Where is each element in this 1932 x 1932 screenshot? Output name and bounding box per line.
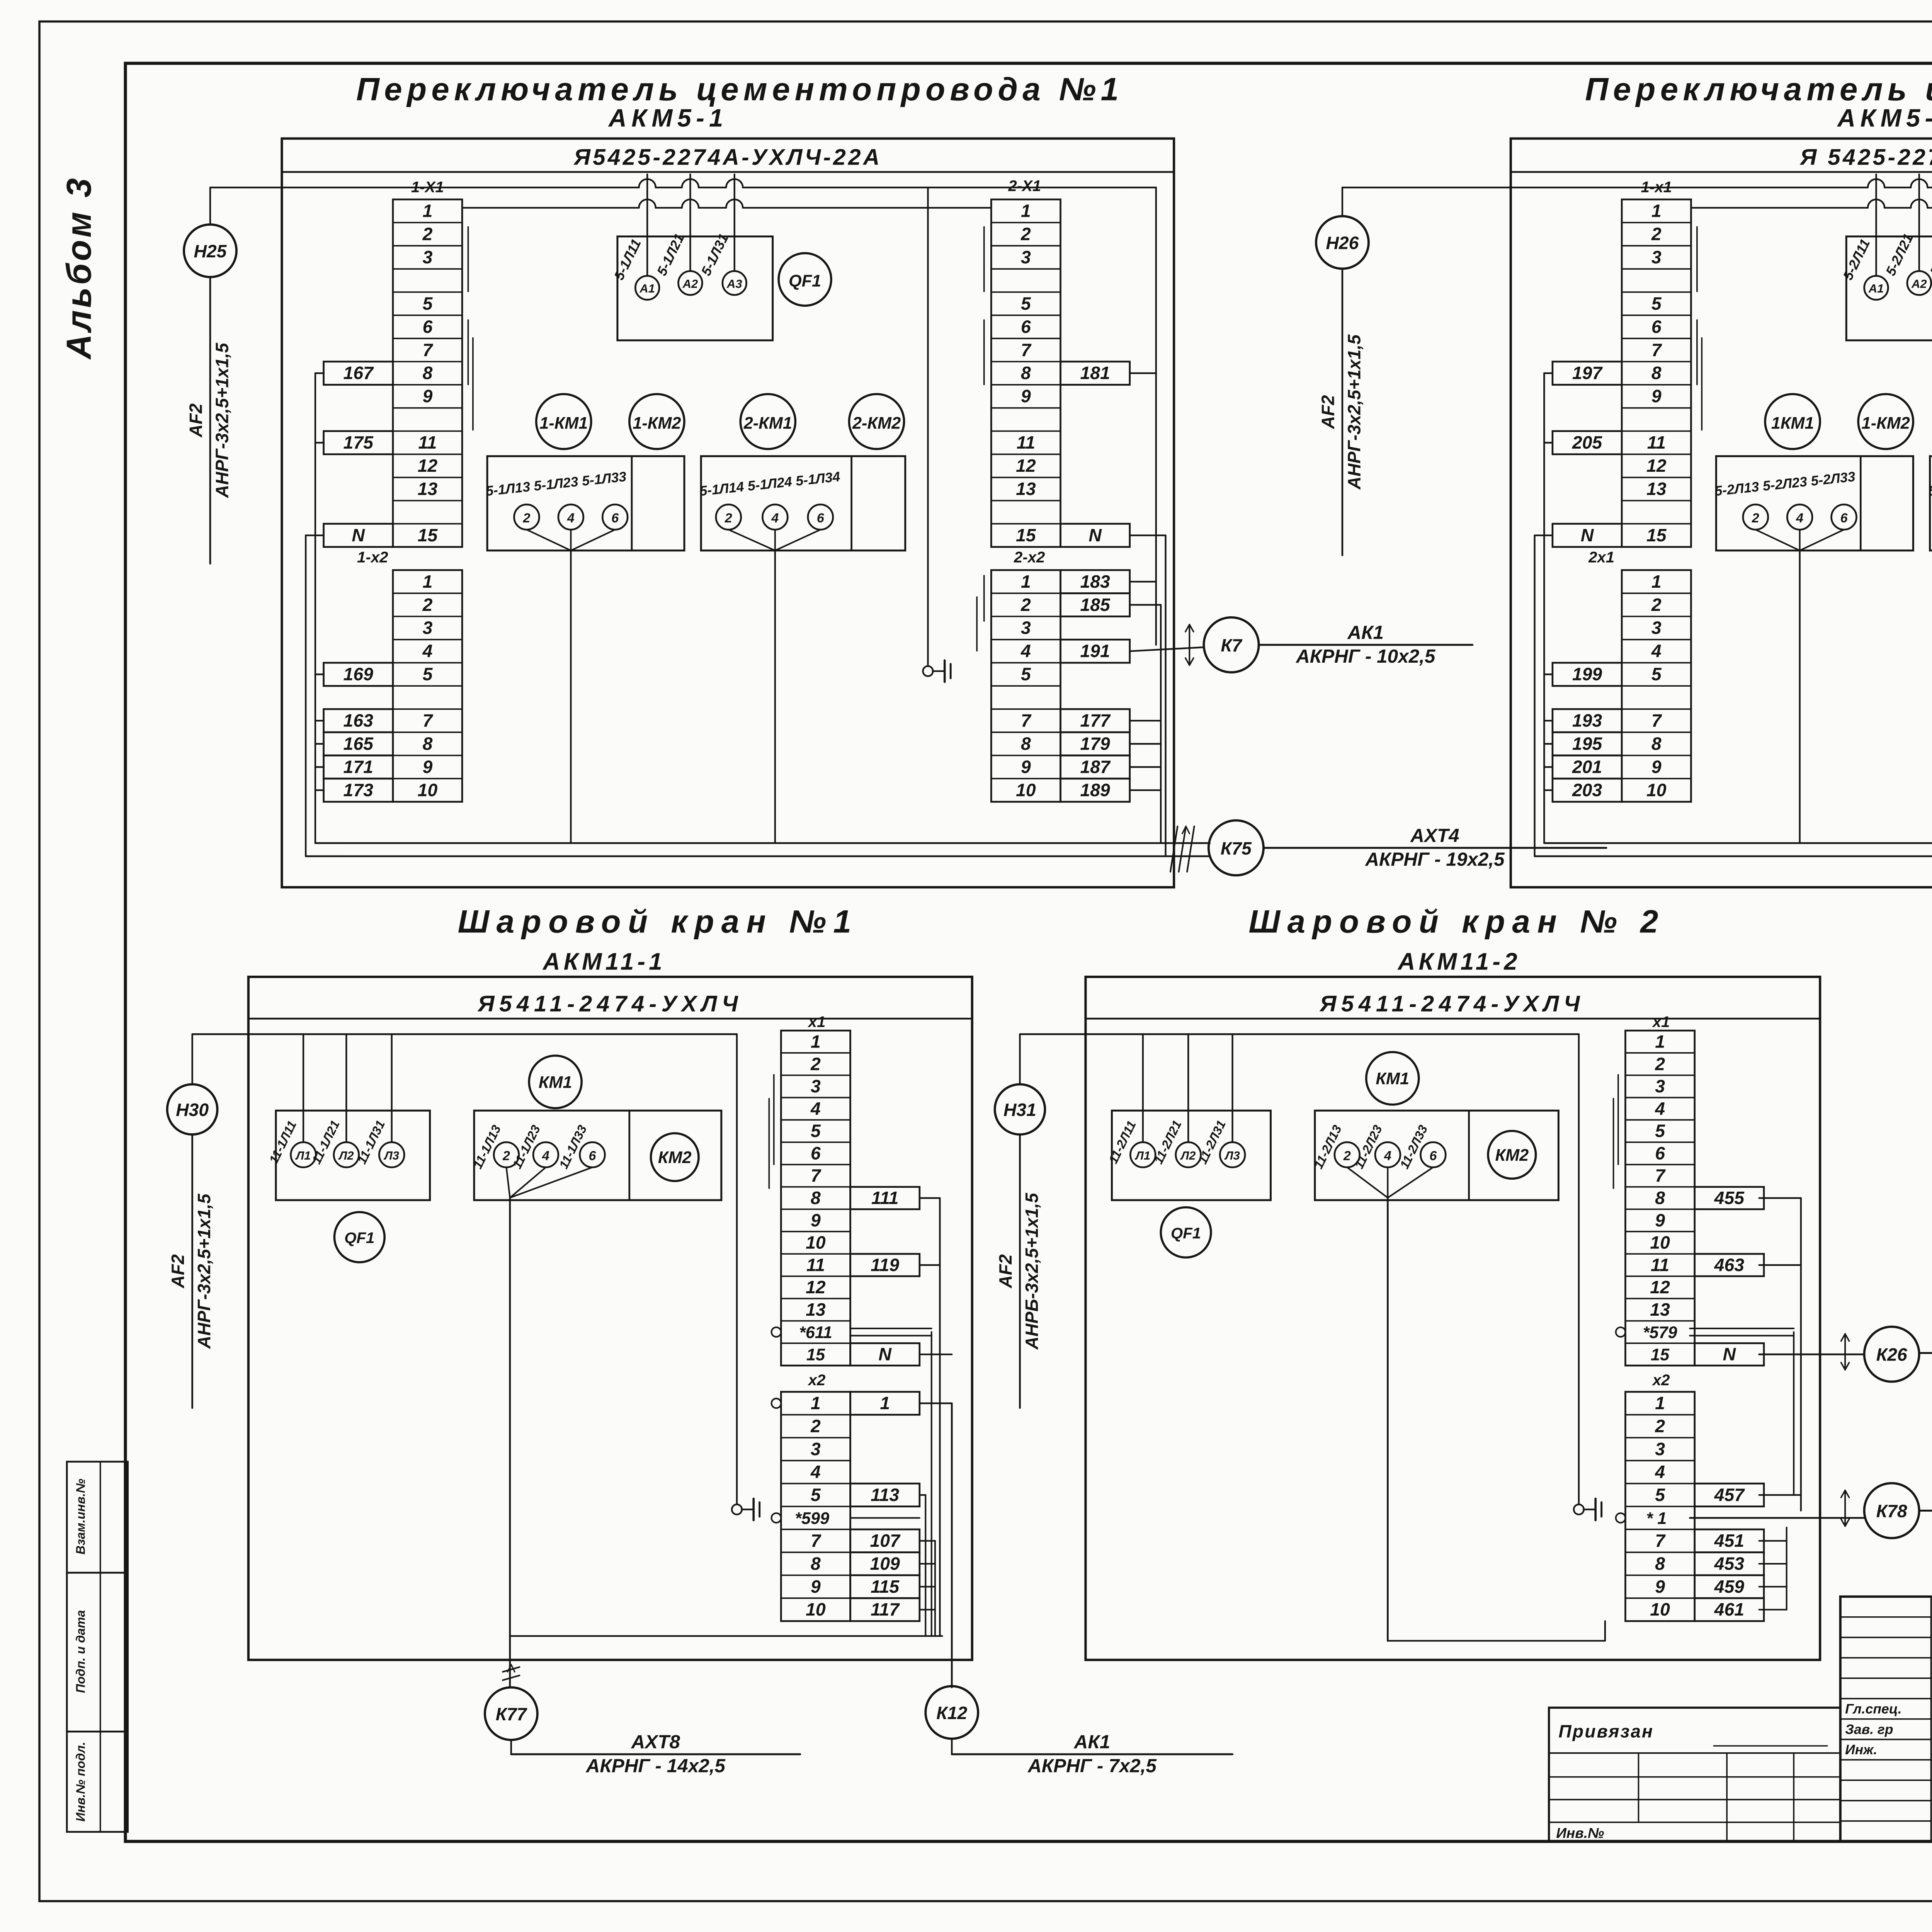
svg-text:АF2: АF2	[1318, 395, 1338, 429]
svg-text:455: 455	[1714, 1188, 1745, 1208]
svg-text:5: 5	[811, 1121, 821, 1141]
svg-text:5: 5	[1021, 293, 1031, 313]
svg-text:5: 5	[1651, 293, 1662, 313]
svg-text:2: 2	[1752, 511, 1759, 526]
svg-text:1: 1	[811, 1393, 821, 1413]
svg-text:3: 3	[423, 618, 433, 638]
svg-text:12: 12	[418, 456, 438, 476]
svg-text:183: 183	[1080, 571, 1111, 592]
svg-text:13: 13	[806, 1299, 826, 1320]
svg-text:3: 3	[1651, 247, 1662, 267]
svg-text:7: 7	[1651, 711, 1662, 731]
svg-text:113: 113	[871, 1485, 899, 1505]
svg-text:119: 119	[871, 1255, 899, 1275]
svg-text:205: 205	[1572, 432, 1603, 452]
svg-text:Переключатель цементопровода: Переключатель цементопровода №2	[1585, 71, 1932, 107]
svg-text:Н30: Н30	[176, 1100, 209, 1120]
svg-text:Н31: Н31	[1003, 1100, 1036, 1120]
svg-text:117: 117	[871, 1599, 900, 1619]
svg-text:А2: А2	[682, 277, 698, 291]
svg-text:Л3: Л3	[384, 1149, 399, 1162]
svg-text:12: 12	[1650, 1277, 1670, 1297]
svg-text:АНРБ-3х2,5+1х1,5: АНРБ-3х2,5+1х1,5	[1022, 1192, 1042, 1350]
svg-text:9: 9	[1651, 757, 1662, 777]
svg-text:7: 7	[1021, 711, 1032, 731]
svg-text:9: 9	[423, 757, 433, 777]
svg-text:203: 203	[1572, 780, 1602, 800]
svg-text:КМ2: КМ2	[1495, 1146, 1529, 1165]
svg-text:10: 10	[1646, 780, 1667, 800]
svg-text:9: 9	[1655, 1210, 1665, 1230]
svg-text:4: 4	[422, 641, 433, 661]
svg-text:9: 9	[1021, 757, 1031, 777]
svg-text:1: 1	[1651, 571, 1662, 592]
svg-text:4: 4	[1651, 641, 1662, 661]
svg-text:15: 15	[1016, 525, 1036, 545]
svg-text:12: 12	[806, 1277, 826, 1297]
svg-text:Я 5425-2274А-УХЛ4-22А: Я 5425-2274А-УХЛ4-22А	[1799, 145, 1932, 170]
svg-text:13: 13	[418, 479, 438, 499]
svg-text:11: 11	[1017, 432, 1035, 452]
svg-text:165: 165	[344, 734, 374, 754]
svg-text:6: 6	[1021, 316, 1031, 337]
svg-text:Л1: Л1	[1135, 1149, 1150, 1162]
svg-text:2: 2	[1651, 224, 1662, 244]
svg-text:10: 10	[806, 1599, 826, 1619]
svg-text:187: 187	[1080, 757, 1111, 777]
svg-text:3: 3	[423, 247, 433, 267]
svg-text:109: 109	[870, 1553, 900, 1573]
svg-text:1-х1: 1-х1	[1641, 179, 1672, 196]
svg-text:173: 173	[344, 780, 374, 800]
svg-text:9: 9	[811, 1577, 821, 1597]
svg-text:АК1: АК1	[1347, 622, 1384, 643]
svg-text:1: 1	[1655, 1031, 1665, 1051]
svg-text:АНРГ-3х2,5+1х1,5: АНРГ-3х2,5+1х1,5	[194, 1193, 214, 1349]
svg-text:3: 3	[1021, 618, 1031, 638]
svg-text:К77: К77	[496, 1704, 527, 1724]
svg-text:11: 11	[806, 1255, 825, 1275]
svg-text:* 1: * 1	[1646, 1509, 1667, 1528]
svg-text:3: 3	[1655, 1439, 1665, 1459]
svg-text:2: 2	[724, 511, 732, 526]
svg-text:8: 8	[1655, 1553, 1665, 1573]
svg-text:7: 7	[1651, 340, 1662, 360]
svg-text:К7: К7	[1221, 635, 1242, 655]
svg-text:201: 201	[1572, 757, 1602, 777]
svg-text:175: 175	[344, 432, 374, 452]
svg-text:4: 4	[810, 1099, 821, 1119]
svg-text:1: 1	[880, 1393, 890, 1413]
svg-text:АК1: АК1	[1073, 1731, 1111, 1753]
svg-text:169: 169	[344, 664, 374, 684]
svg-text:К78: К78	[1876, 1501, 1907, 1521]
svg-text:х2: х2	[808, 1371, 826, 1389]
svg-text:Инв.№ подл.: Инв.№ подл.	[73, 1742, 87, 1822]
svg-text:1-КМ2: 1-КМ2	[633, 414, 681, 432]
svg-text:Л2: Л2	[1180, 1149, 1196, 1162]
svg-text:АКРНГ - 10х2,5: АКРНГ - 10х2,5	[1295, 646, 1436, 667]
svg-text:х2: х2	[1652, 1371, 1670, 1389]
svg-text:Шаровой кран №1: Шаровой кран №1	[458, 903, 859, 940]
svg-text:8: 8	[811, 1553, 821, 1573]
svg-text:Шаровой кран № 2: Шаровой кран № 2	[1248, 903, 1665, 940]
svg-text:451: 451	[1714, 1531, 1744, 1551]
svg-text:2-Х1: 2-Х1	[1008, 177, 1041, 194]
svg-text:7: 7	[1655, 1531, 1666, 1551]
svg-text:Инв.№: Инв.№	[1556, 1825, 1604, 1841]
svg-text:АНРГ-3х2,5+1х1,5: АНРГ-3х2,5+1х1,5	[1344, 334, 1364, 490]
svg-text:163: 163	[344, 711, 374, 731]
svg-text:*599: *599	[795, 1509, 829, 1528]
svg-text:Взам.инв.№: Взам.инв.№	[73, 1479, 87, 1554]
svg-text:181: 181	[1080, 363, 1110, 383]
svg-text:12: 12	[1016, 456, 1036, 476]
svg-text:1: 1	[1021, 201, 1031, 221]
svg-text:Переключатель цементопровода: Переключатель цементопровода №1	[356, 71, 1124, 107]
svg-text:4: 4	[1655, 1099, 1665, 1119]
svg-text:115: 115	[871, 1577, 900, 1597]
svg-text:АКМ5-2: АКМ5-2	[1837, 104, 1932, 132]
svg-text:1: 1	[1021, 571, 1031, 592]
svg-text:195: 195	[1572, 734, 1603, 754]
svg-text:К26: К26	[1876, 1345, 1908, 1365]
svg-text:111: 111	[871, 1188, 898, 1208]
svg-text:Привязан: Привязан	[1558, 1721, 1654, 1742]
svg-text:3: 3	[1651, 618, 1662, 638]
svg-text:5: 5	[1651, 664, 1662, 684]
svg-text:N: N	[1581, 525, 1594, 545]
svg-text:1КМ1: 1КМ1	[1771, 414, 1814, 432]
svg-text:х1: х1	[808, 1013, 826, 1031]
svg-text:Альбом 3: Альбом 3	[60, 176, 98, 360]
svg-text:9: 9	[1655, 1577, 1665, 1597]
svg-text:АНРГ-3х2,5+1х1,5: АНРГ-3х2,5+1х1,5	[212, 342, 232, 498]
svg-text:9: 9	[811, 1210, 821, 1230]
svg-text:АКМ11-1: АКМ11-1	[542, 949, 666, 975]
svg-text:6: 6	[423, 316, 433, 337]
svg-text:N: N	[1723, 1344, 1736, 1364]
svg-text:2: 2	[422, 595, 433, 615]
svg-text:11: 11	[418, 432, 437, 452]
svg-text:2: 2	[1343, 1148, 1351, 1163]
svg-text:7: 7	[811, 1165, 821, 1185]
svg-text:6: 6	[589, 1148, 597, 1163]
svg-text:2-КМ2: 2-КМ2	[852, 414, 901, 432]
svg-text:171: 171	[344, 757, 373, 777]
svg-text:N: N	[1088, 525, 1102, 545]
svg-text:Л2: Л2	[338, 1149, 354, 1162]
svg-text:2: 2	[810, 1416, 821, 1436]
svg-text:13: 13	[1646, 479, 1667, 499]
svg-text:9: 9	[1021, 386, 1031, 406]
svg-text:А1: А1	[639, 282, 655, 295]
svg-text:2: 2	[422, 224, 433, 244]
svg-text:8: 8	[423, 734, 433, 754]
svg-text:АF2: АF2	[168, 1254, 188, 1289]
svg-text:10: 10	[1650, 1599, 1670, 1619]
svg-text:1-х2: 1-х2	[357, 549, 388, 566]
svg-text:*579: *579	[1643, 1323, 1677, 1342]
svg-text:6: 6	[811, 1143, 821, 1163]
svg-text:7: 7	[811, 1531, 821, 1551]
svg-text:1: 1	[1655, 1393, 1665, 1413]
svg-text:4: 4	[1796, 511, 1803, 526]
svg-text:Я5411-2474-УХЛЧ: Я5411-2474-УХЛЧ	[477, 992, 743, 1017]
svg-text:459: 459	[1714, 1577, 1745, 1597]
svg-text:КМ1: КМ1	[539, 1073, 572, 1092]
svg-text:6: 6	[611, 511, 619, 526]
svg-text:5: 5	[423, 664, 433, 684]
svg-text:QF1: QF1	[789, 272, 821, 291]
svg-text:К12: К12	[936, 1703, 967, 1723]
svg-text:Гл.спец.: Гл.спец.	[1845, 1701, 1901, 1717]
svg-text:3: 3	[1021, 247, 1031, 267]
svg-text:2: 2	[502, 1148, 510, 1163]
svg-text:191: 191	[1080, 641, 1110, 661]
svg-text:8: 8	[1655, 1188, 1665, 1208]
svg-text:К75: К75	[1221, 838, 1252, 858]
svg-text:7: 7	[1021, 340, 1032, 360]
svg-text:11: 11	[1647, 432, 1666, 452]
svg-text:4: 4	[1020, 641, 1031, 661]
svg-text:5: 5	[1021, 664, 1031, 684]
svg-text:4: 4	[810, 1462, 821, 1482]
svg-text:4: 4	[542, 1148, 549, 1163]
svg-text:3: 3	[811, 1076, 821, 1096]
svg-text:13: 13	[1650, 1299, 1670, 1320]
svg-text:Л3: Л3	[1224, 1149, 1240, 1162]
svg-text:х1: х1	[1652, 1013, 1670, 1031]
svg-text:1-КМ2: 1-КМ2	[1862, 414, 1910, 432]
svg-text:10: 10	[806, 1233, 826, 1253]
svg-text:QF1: QF1	[1171, 1225, 1201, 1242]
svg-text:А2: А2	[1911, 277, 1927, 291]
svg-text:11: 11	[1651, 1255, 1669, 1275]
svg-text:2: 2	[1651, 595, 1662, 615]
svg-text:Я5425-2274А-УХЛЧ-22А: Я5425-2274А-УХЛЧ-22А	[573, 145, 882, 170]
svg-text:8: 8	[423, 363, 433, 383]
svg-text:8: 8	[1651, 363, 1662, 383]
svg-text:АКРНГ - 14х2,5: АКРНГ - 14х2,5	[585, 1755, 726, 1776]
svg-text:193: 193	[1572, 711, 1602, 731]
svg-text:3: 3	[811, 1439, 821, 1459]
svg-text:4: 4	[771, 511, 779, 526]
svg-text:1: 1	[811, 1031, 821, 1051]
svg-text:10: 10	[418, 780, 438, 800]
svg-text:N: N	[352, 525, 365, 545]
svg-text:*611: *611	[799, 1323, 832, 1342]
svg-text:1-КМ1: 1-КМ1	[539, 414, 588, 432]
svg-text:4: 4	[1384, 1148, 1391, 1163]
svg-text:5: 5	[423, 293, 433, 313]
svg-text:8: 8	[1021, 734, 1031, 754]
svg-text:6: 6	[1840, 511, 1848, 526]
svg-text:107: 107	[870, 1531, 901, 1551]
svg-text:9: 9	[423, 386, 433, 406]
svg-text:6: 6	[817, 511, 825, 526]
svg-text:Н25: Н25	[194, 241, 227, 261]
svg-text:453: 453	[1714, 1553, 1745, 1573]
svg-text:Зав. гр: Зав. гр	[1845, 1721, 1893, 1737]
svg-text:15: 15	[1651, 1346, 1670, 1364]
svg-text:2х1: 2х1	[1588, 549, 1614, 566]
svg-text:457: 457	[1714, 1485, 1745, 1505]
svg-text:10: 10	[1650, 1233, 1670, 1253]
svg-text:АХТ4: АХТ4	[1410, 825, 1459, 846]
svg-text:1-Х1: 1-Х1	[411, 179, 444, 196]
svg-text:5: 5	[1655, 1485, 1665, 1505]
svg-text:Н26: Н26	[1326, 233, 1359, 253]
svg-text:КМ2: КМ2	[658, 1148, 692, 1167]
svg-text:А3: А3	[726, 277, 742, 291]
svg-text:КМ1: КМ1	[1376, 1070, 1409, 1088]
svg-text:15: 15	[806, 1346, 825, 1364]
svg-text:QF1: QF1	[344, 1229, 374, 1247]
svg-text:5: 5	[811, 1485, 821, 1505]
svg-text:1: 1	[1651, 201, 1662, 221]
svg-text:6: 6	[1655, 1143, 1665, 1163]
svg-text:2: 2	[1020, 224, 1031, 244]
svg-text:185: 185	[1080, 595, 1111, 615]
svg-text:461: 461	[1714, 1599, 1744, 1619]
svg-text:1: 1	[423, 571, 433, 592]
svg-text:179: 179	[1080, 734, 1111, 754]
svg-text:12: 12	[1646, 456, 1667, 476]
svg-text:6: 6	[1429, 1148, 1437, 1163]
svg-text:8: 8	[1021, 363, 1031, 383]
svg-text:АF2: АF2	[995, 1254, 1015, 1289]
svg-text:N: N	[878, 1344, 892, 1364]
svg-text:2: 2	[1020, 595, 1031, 615]
svg-text:5: 5	[1655, 1121, 1665, 1141]
svg-text:9: 9	[1651, 386, 1662, 406]
svg-text:АКМ11-2: АКМ11-2	[1397, 949, 1521, 975]
svg-text:АКРНГ - 19х2,5: АКРНГ - 19х2,5	[1364, 849, 1505, 870]
svg-text:177: 177	[1080, 711, 1111, 731]
svg-text:Я5411-2474-УХЛЧ: Я5411-2474-УХЛЧ	[1319, 992, 1585, 1017]
svg-text:6: 6	[1651, 316, 1662, 337]
svg-text:3: 3	[1655, 1076, 1665, 1096]
svg-text:189: 189	[1080, 780, 1111, 800]
svg-text:7: 7	[423, 711, 434, 731]
svg-text:2-х2: 2-х2	[1014, 549, 1045, 566]
svg-text:15: 15	[418, 525, 438, 545]
svg-text:АКРНГ - 7х2,5: АКРНГ - 7х2,5	[1027, 1755, 1157, 1776]
svg-text:2-КМ1: 2-КМ1	[743, 414, 792, 432]
svg-text:2: 2	[810, 1054, 821, 1074]
svg-text:А1: А1	[1868, 282, 1884, 295]
svg-text:2: 2	[523, 511, 531, 526]
svg-text:Инж.: Инж.	[1845, 1742, 1877, 1757]
svg-text:13: 13	[1016, 479, 1036, 499]
svg-text:197: 197	[1572, 363, 1603, 383]
svg-text:8: 8	[1651, 734, 1662, 754]
svg-text:167: 167	[344, 363, 374, 383]
svg-text:4: 4	[1655, 1462, 1665, 1482]
svg-text:199: 199	[1572, 664, 1602, 684]
svg-text:АF2: АF2	[185, 403, 206, 438]
svg-text:7: 7	[423, 340, 434, 360]
svg-text:2: 2	[1655, 1416, 1665, 1436]
svg-text:АКМ5-1: АКМ5-1	[608, 104, 728, 132]
svg-text:Подп. и дата: Подп. и дата	[73, 1610, 87, 1693]
svg-text:8: 8	[811, 1188, 821, 1208]
svg-text:АХТ8: АХТ8	[631, 1731, 680, 1753]
svg-text:15: 15	[1646, 525, 1667, 545]
svg-text:10: 10	[1016, 780, 1036, 800]
svg-text:2: 2	[1655, 1054, 1665, 1074]
svg-text:1: 1	[423, 201, 433, 221]
svg-text:7: 7	[1655, 1165, 1666, 1185]
svg-text:4: 4	[567, 511, 575, 526]
svg-text:463: 463	[1714, 1255, 1745, 1275]
svg-text:Л1: Л1	[295, 1149, 311, 1162]
